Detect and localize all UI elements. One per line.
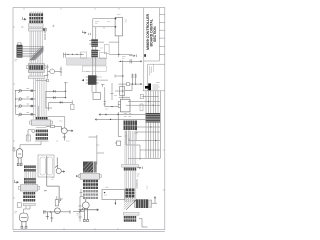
address text rows [153, 83, 160, 90]
label left of M1 [77, 214, 80, 216]
ticks at band edge [137, 174, 140, 176]
connector J5 pin rows [23, 192, 35, 206]
arrow icon near J5 [14, 180, 19, 184]
svg-text:RIBBON: RIBBON [136, 179, 139, 188]
connector K2 over grid [146, 113, 161, 123]
right rail [115, 60, 124, 100]
wide label box [82, 66, 106, 72]
vertical pair bus [93, 19, 96, 76]
label ticks above K1 [124, 114, 132, 117]
wire loop to Q5 [48, 117, 65, 128]
connector J3 pin rows [35, 130, 49, 141]
IC U4a dark [89, 39, 98, 47]
D-shell connector P1 [17, 149, 23, 166]
IC U4b dark [91, 50, 100, 58]
scattered labels [59, 15, 127, 146]
ribbon bus 3 band bottom-left [25, 165, 36, 192]
caps pair C5 C6 [131, 74, 137, 85]
small vertical text in logo box [150, 64, 154, 75]
connector K3 light strip [122, 165, 139, 168]
bottom center box U12 [102, 187, 125, 205]
band label vertical [136, 179, 139, 188]
diode D1 icon [82, 30, 91, 35]
resistor ticks below K1 [125, 130, 140, 160]
resistor R9 [104, 100, 119, 107]
transistor Q5 [61, 127, 73, 141]
label box L2 [100, 53, 107, 59]
connector J3 top dark row [36, 117, 48, 120]
hook wire [139, 219, 148, 228]
ribbon bus 1 vertical band [30, 12, 43, 78]
title block [143, 8, 165, 91]
right label vertical [146, 186, 148, 190]
connector block K4 horizontal [135, 199, 152, 208]
transistor Q4 row [16, 106, 39, 118]
tiny mark left [52, 25, 54, 27]
transistor Q7 [44, 208, 71, 222]
wire from J3 to P1 [20, 142, 41, 149]
connector rows K5 bottom [123, 213, 139, 222]
transistor Q3 row [15, 104, 36, 108]
transistor Q1 row [15, 89, 36, 93]
zone letter mark [144, 54, 146, 57]
diode D4 row [46, 100, 74, 110]
diode icon right [129, 55, 137, 58]
D-shell connector P2 [20, 213, 28, 228]
svg-text:DATA BUS: DATA BUS [43, 27, 47, 40]
IC U5 dark [82, 75, 99, 92]
wire with resistor R6 [46, 125, 62, 127]
oscillator circle T1 [44, 69, 61, 76]
connector K6 grid block [126, 189, 135, 198]
company logo [145, 83, 151, 90]
small box right [104, 45, 109, 54]
transistor Q6 [44, 156, 65, 203]
ribbon fold diagonal [30, 46, 44, 60]
bus wire B [95, 112, 146, 145]
box U7 [118, 99, 130, 112]
label above row 1 [122, 57, 126, 59]
connector J5 body [19, 185, 40, 191]
wire left of U8 [80, 189, 83, 196]
label box L1 [81, 52, 87, 58]
connector U8 body [76, 173, 101, 179]
connector K3 dark row [124, 168, 136, 171]
svg-text:SECTION: SECTION [153, 26, 157, 42]
label left of P2 [15, 212, 18, 214]
label above U2 [56, 140, 58, 142]
U8 pin rows gray [83, 190, 98, 199]
diode D2 row [46, 83, 68, 98]
bus label text [43, 27, 47, 40]
resistor R7 above Q7 [55, 196, 62, 206]
small box left of J3 [26, 135, 30, 141]
connector J4 stripe rows [24, 166, 36, 184]
right group near Q7 [73, 197, 84, 222]
U8 pin rows dark [83, 180, 98, 189]
resistor R5 vertical [60, 67, 62, 77]
comp below U5 [99, 80, 113, 100]
top middle circuit wires [93, 18, 116, 29]
border frame [13, 8, 165, 232]
side boxes left of grid [140, 94, 144, 110]
hatched connector H1 [83, 162, 97, 173]
box U3 [115, 17, 122, 36]
transistor Q2 row [15, 97, 36, 101]
box U6 [93, 93, 101, 100]
diode D3 row [46, 91, 66, 108]
label near Q6 rail [52, 178, 55, 180]
connector K1 stripes [124, 121, 138, 131]
cap C4 left of P1 [12, 148, 15, 151]
connector J1 rows top [28, 13, 46, 31]
wires below U3 [98, 36, 132, 57]
J2 label [15, 60, 18, 62]
fanout connector J2 [17, 43, 22, 58]
wire with junction dots [63, 53, 84, 58]
connector J6 mid [27, 64, 49, 82]
motor M1 circle [79, 199, 100, 222]
title text M6809 CONTROLLER BOARD DIGITAL SECTION [146, 14, 157, 50]
arrow at K3 [137, 167, 142, 170]
ribbon bus 2 band lower [34, 78, 47, 119]
transistor Q10 [28, 130, 35, 141]
transistor row rail [15, 91, 17, 115]
power arrow icon near J1 [21, 17, 26, 27]
connector J3 body [29, 120, 52, 127]
ribbon diagonal bend 2 [124, 198, 137, 210]
side box at J5 [17, 203, 21, 207]
right mid wire row 1 [119, 59, 143, 63]
wire down to O block [89, 135, 105, 165]
wires J5 to P2 [24, 206, 31, 213]
bus wire A [99, 113, 146, 116]
ribbon fan wires [22, 47, 43, 57]
ribbon bus 4 bottom right [125, 131, 136, 202]
box U11 [119, 84, 132, 97]
box U2 right of P1 [38, 155, 54, 177]
zone tick top [13, 8, 165, 231]
shaded net strip [66, 58, 106, 65]
resistor R8 vertical [46, 65, 48, 79]
bus grid right [126, 91, 160, 159]
wire from K4 [152, 196, 157, 203]
right mid wire row 2 [119, 83, 143, 86]
